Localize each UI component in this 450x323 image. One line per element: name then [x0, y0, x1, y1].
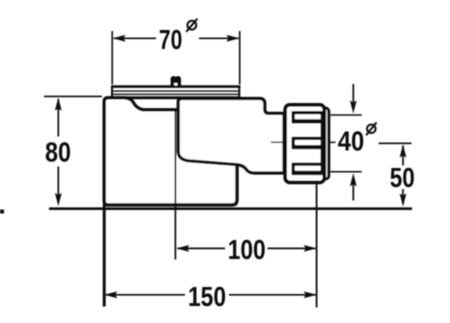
- grate plate: [106, 86, 241, 98]
- dim 50 up arrow: [400, 145, 407, 158]
- dim 150 dimension line: [106, 294, 186, 296]
- dim 70 right arrow: [227, 35, 240, 42]
- dim 80 top extension line: [44, 95, 102, 97]
- dim 40 lower arrow line: [352, 178, 354, 201]
- svg-text:70: 70: [159, 24, 182, 55]
- dim 70 left arrow: [113, 35, 126, 42]
- dim 70 diameter symbol: [186, 19, 197, 32]
- dim 100 left arrow: [176, 245, 189, 252]
- dim 80 down arrow: [55, 193, 62, 206]
- nut body: [285, 105, 324, 183]
- nut thread tooth 3: [292, 163, 327, 176]
- dim 50 down arrow: [400, 194, 407, 207]
- dim 40 lower extension line: [331, 171, 362, 173]
- svg-text:80: 80: [45, 136, 71, 167]
- floor line: [49, 207, 412, 210]
- nut thread spine: [321, 111, 327, 175]
- nut cap (right): [318, 108, 329, 179]
- trap body shell: [104, 98, 237, 205]
- dim 40 upper arrow line: [352, 84, 354, 109]
- dim 80 dimension line: [57, 99, 59, 137]
- dim 50 dimension line: [402, 146, 404, 166]
- centerline stub right of nut: [330, 141, 336, 143]
- left edge scan artifact: [0, 210, 4, 214]
- svg-text:40: 40: [338, 125, 364, 156]
- dim 70 dimension line: [114, 37, 156, 39]
- svg-text:150: 150: [188, 281, 226, 312]
- dim 150 left extension line (body edge extended): [103, 204, 106, 307]
- screw knob on plate: [171, 76, 181, 87]
- dim 70 left extension line: [111, 31, 113, 85]
- dim 100 dimension line: [178, 247, 226, 249]
- insert cup with outlet pipe: [178, 99, 284, 174]
- dimension 100 left extension line: [174, 111, 176, 260]
- svg-text:50: 50: [390, 162, 415, 193]
- dim 40 diameter symbol: [366, 122, 376, 135]
- nut thread tooth 2: [292, 137, 327, 150]
- dim 50 top reference line: [379, 142, 412, 144]
- dim 70 right extension line: [239, 31, 241, 85]
- nut thread tooth 1: [292, 111, 327, 124]
- dim 100 right arrow: [304, 245, 317, 252]
- dim 150 left arrow: [104, 291, 117, 298]
- dim 40 upper extension line: [331, 114, 362, 116]
- svg-text:100: 100: [228, 234, 266, 265]
- dim 80 up arrow: [55, 98, 62, 111]
- dim 100/150 right extension line: [316, 181, 318, 308]
- dim 150 right arrow: [304, 291, 317, 298]
- centerline stub inside insert: [271, 141, 284, 143]
